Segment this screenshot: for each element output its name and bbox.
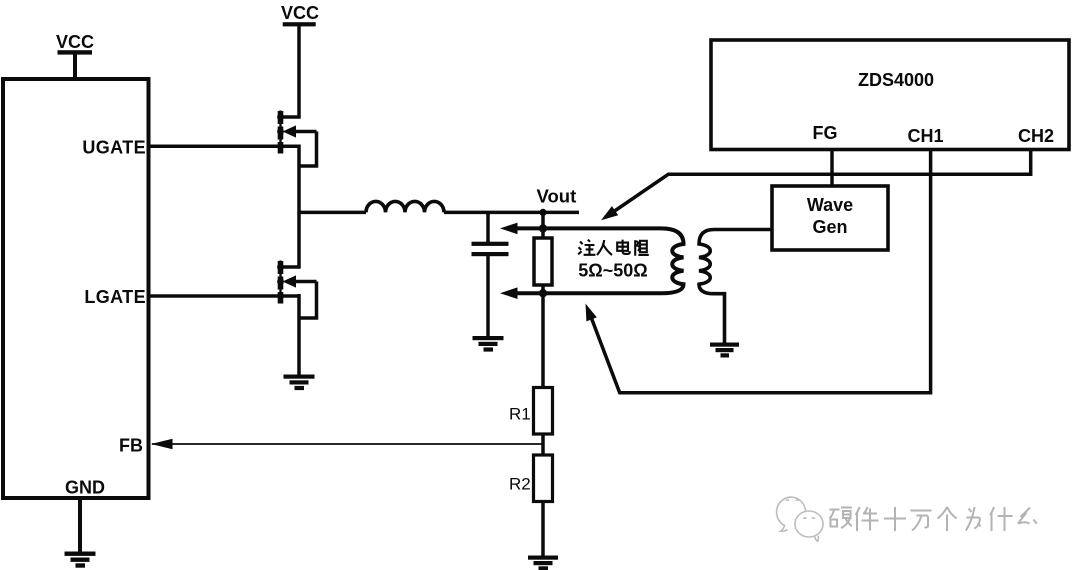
ground (R2): [528, 556, 558, 570]
transistor Q2 lower NMOS channel bar: [279, 261, 281, 304]
svg-text:FB: FB: [119, 436, 143, 456]
glyph jian: [856, 507, 860, 531]
injection box outline with transformer left winding: [517, 228, 684, 293]
capacitor C1 lower lead: [486, 256, 490, 338]
svg-text:Vout: Vout: [537, 186, 577, 207]
svg-text:GND: GND: [65, 477, 105, 497]
arrowhead FB: [151, 439, 173, 450]
svg-text:Wave: Wave: [807, 195, 853, 215]
wire UGATE to Q1 gate: [150, 145, 300, 149]
svg-text:R2: R2: [509, 475, 531, 494]
svg-text:CH2: CH2: [1018, 126, 1054, 146]
ground (transformer): [710, 343, 739, 358]
wire VCC to U1: [73, 52, 77, 79]
wire Q2 source to ground: [297, 294, 301, 377]
wire LGATE to Q2 gate: [150, 294, 300, 298]
ZDS4000 box: [711, 40, 1069, 150]
wire FB feedback (thin): [152, 443, 543, 445]
glyph ying: [829, 510, 839, 527]
wire FG to Wave Gen: [830, 150, 834, 187]
wire switch node vertical (Q1 source to Q2 drain): [281, 145, 299, 268]
arrowhead CH1: [586, 304, 597, 322]
glyph wei: [966, 507, 981, 531]
transistor Q2 body-source loop: [299, 282, 317, 319]
node injection bottom dot: [539, 289, 547, 297]
svg-text:FG: FG: [813, 123, 838, 143]
wire CH2 probe: [605, 150, 1031, 218]
glyph ru: [597, 240, 612, 255]
transistor Q1 body-source loop: [299, 132, 317, 167]
arrowhead injection top: [500, 223, 518, 235]
wire GND pin: [78, 498, 82, 554]
transistor Q2 body arrow: [283, 275, 297, 287]
glyph shi: [884, 507, 906, 531]
transformer right winding: [699, 230, 772, 346]
VCC symbol (top middle): [281, 3, 319, 26]
ground (U1 GND): [65, 552, 96, 568]
wire Vout to injection network: [541, 212, 545, 238]
wire CH1 probe: [590, 150, 931, 393]
resistor R1: [534, 388, 553, 435]
IC U1 controller box: [3, 79, 149, 498]
svg-text:VCC: VCC: [56, 32, 94, 52]
wire R2 to ground: [541, 502, 545, 558]
capacitor C1 plates: [472, 242, 509, 257]
svg-text:Gen: Gen: [812, 217, 847, 237]
glyph ge: [938, 507, 957, 531]
svg-text:LGATE: LGATE: [84, 287, 146, 307]
watermark text ying-jian-shi-wan-ge-wei-shen-me: [829, 507, 1036, 531]
svg-text:R1: R1: [509, 405, 531, 424]
glyph zu: [635, 240, 639, 255]
wire inductor to Vout: [444, 211, 579, 215]
svg-text:5Ω~50Ω: 5Ω~50Ω: [578, 261, 647, 281]
ground (C1): [473, 336, 504, 352]
inductor L1: [366, 201, 444, 212]
watermark logo (chat bubbles): [777, 497, 823, 541]
glyph me: [1018, 508, 1037, 524]
wire VCC to Q1 drain: [281, 24, 299, 117]
arrowhead injection bottom: [500, 287, 518, 299]
svg-text:UGATE: UGATE: [82, 138, 146, 158]
capacitor C1 lead: [486, 212, 490, 242]
node Vout junction dot: [539, 209, 546, 216]
wire R1 to R2: [541, 434, 545, 455]
VCC symbol (above U1): [56, 32, 94, 55]
glyph wan: [911, 511, 932, 531]
ground (Q2 source): [284, 375, 315, 391]
glyph zhu: [578, 242, 582, 255]
label zhu-ru-dian-zu (injection resistor) hand-drawn glyphs: [578, 240, 649, 256]
wire switch node to inductor: [299, 211, 366, 215]
resistor injection: [534, 238, 552, 285]
wire resistor bottom to divider: [541, 285, 545, 388]
Wave Gen box: [772, 186, 888, 250]
glyph dian: [623, 240, 630, 254]
transistor Q1 body arrow: [283, 125, 297, 137]
resistor R2: [534, 455, 553, 502]
svg-text:VCC: VCC: [281, 3, 319, 23]
svg-text:ZDS4000: ZDS4000: [858, 70, 934, 90]
transistor Q1 upper NMOS channel bar: [279, 111, 281, 154]
glyph shen: [990, 507, 1013, 531]
arrowhead CH2: [601, 206, 618, 220]
svg-text:CH1: CH1: [907, 126, 943, 146]
node injection top dot: [539, 224, 547, 232]
label Wave Gen: [807, 195, 853, 237]
